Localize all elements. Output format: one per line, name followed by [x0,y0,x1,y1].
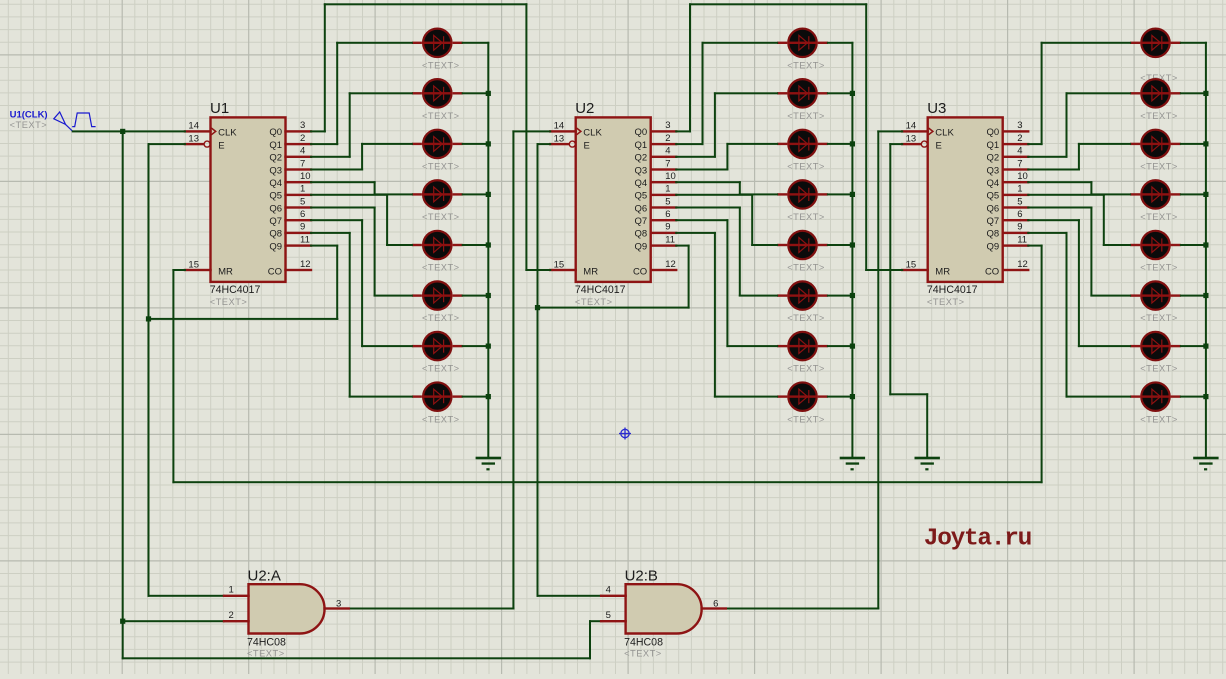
IC U3 pin 12 CO stub [1002,269,1030,271]
IC U2 pin 15 MR stub [549,269,577,271]
IC U3 <TEXT> label [927,297,965,307]
IC U3 pin 5 Q6 stub [1002,206,1030,208]
svg-text:U2:B: U2:B [625,567,658,584]
ground U1 LED column [476,457,501,471]
svg-text:2: 2 [1017,133,1022,144]
clock generator <TEXT> label [10,120,48,130]
LED D11 [777,130,828,158]
IC U2 pin 12 CO stub [650,269,678,271]
svg-text:Q6: Q6 [987,203,1000,214]
svg-text:<TEXT>: <TEXT> [1140,263,1178,273]
junction U1 cathode bus row 3 [486,141,491,146]
LED D15 <TEXT> label [787,364,825,374]
IC U3 pin Q9 name [987,241,1000,252]
svg-text:12: 12 [300,259,311,270]
IC U2 pin Q4 name [635,178,648,189]
IC U2 pin 10 number [665,171,676,182]
wire U3 Q8 out [1027,232,1067,234]
svg-text:MR: MR [583,266,598,277]
gate U2:B pin 6 number [713,599,718,610]
wire U2 LED3 cathode to bus [827,143,854,145]
wire U3 LED4 cathode to bus [1180,193,1207,195]
IC U1 pin 6 Q7 stub [284,219,312,221]
IC U2 pin 12 number [665,259,676,270]
svg-text:1: 1 [1017,184,1022,195]
clock generator label U1(CLK) [10,110,48,121]
IC U3 pin CLK name [935,127,954,138]
ground U2 LED column [840,457,865,471]
LED D13 <TEXT> label [787,263,825,273]
LED D3 [412,130,463,158]
origin cursor marker [619,428,631,440]
IC U2 pin 5 number [665,196,670,207]
svg-text:E: E [936,140,942,151]
svg-text:Q9: Q9 [987,241,1000,252]
wire U2 Q4 out [675,181,741,183]
svg-text:Q3: Q3 [269,165,282,176]
svg-text:<TEXT>: <TEXT> [1140,162,1178,172]
wire U1 Q8 vertical [349,232,351,398]
IC U2 pin 13 E inversion bubble [569,141,575,147]
svg-text:Q2: Q2 [987,153,1000,164]
junction U1 cathode bus row 7 [486,344,491,349]
LED D1 <TEXT> label [422,60,460,70]
wire U3 E ground drop [926,393,928,458]
wire U1 LED4 cathode to bus [462,193,490,195]
IC U1 <TEXT> label [210,297,248,307]
IC U1 value 74HC4017 [210,284,261,296]
junction U1 cathode bus row 5 [486,242,491,247]
wire U1 Q6 to LED anode [374,295,413,297]
svg-text:3: 3 [665,120,670,131]
wire U1 Q4 vertical [374,181,376,195]
wire U1 LED5 cathode to bus [462,244,490,246]
svg-text:U2:A: U2:A [248,567,281,584]
svg-text:Q8: Q8 [635,229,648,240]
LED D15 [777,332,828,360]
IC U1 pin 12 number [300,259,311,270]
wire U1 Q0 down to U2 MR [525,3,527,271]
svg-text:Q4: Q4 [987,178,1000,189]
LED D10 [777,79,828,107]
svg-text:Q5: Q5 [987,191,1000,202]
wire clock vertical down [122,130,124,622]
wire U3 Q1 to LED anode [1041,42,1132,44]
LED D3 <TEXT> label [422,162,460,172]
LED D23 <TEXT> label [1140,364,1178,374]
wire U2 Q9 loop horizontal [537,307,690,309]
wire U1 LED3 cathode to bus [462,143,490,145]
IC U1 pin 7 Q3 stub [284,168,312,170]
AND gate U2:A 74HC08 body [249,584,325,633]
wire U3 Q8 to LED anode [1066,396,1132,398]
wire U2 Q4 vertical [739,181,741,195]
IC U1 pin 13 E stub [184,143,204,145]
svg-text:6: 6 [300,209,305,220]
LED D19 [1130,130,1181,158]
IC U3 CLK edge-trigger chevron [929,128,933,135]
LED D6 [412,281,463,309]
wire U3 E vertical down [889,143,891,395]
IC U1 pin 3 number [300,120,305,131]
IC U1 pin 4 number [300,146,305,157]
IC U1 pin 11 number [300,234,310,245]
svg-text:Q7: Q7 [987,216,1000,227]
IC U1 pin Q7 name [269,216,282,227]
IC U3 pin 2 Q1 stub [1002,143,1030,145]
wire U1 LED1 cathode to bus [462,42,490,44]
IC U1 pin E name [218,140,224,151]
IC U1 pin MR name [218,266,233,277]
wire U3 Q3 vertical [1078,143,1080,171]
gate U2:A <TEXT> label [247,648,285,658]
svg-text:Joyta.ru: Joyta.ru [924,526,1031,553]
svg-text:4: 4 [606,584,611,595]
svg-text:74HC4017: 74HC4017 [927,284,978,296]
IC U3 pin 2 number [1017,133,1022,144]
svg-text:74HC4017: 74HC4017 [575,284,626,296]
wire U2 Q7 to LED anode [726,345,778,347]
gate U2:A output pin 3 stub [323,607,350,609]
wire U1 LED8 cathode to bus [462,396,490,398]
wire U3 LED3 cathode to bus [1180,143,1207,145]
wire U3 Q3 to LED anode [1078,143,1131,145]
svg-text:Q1: Q1 [987,140,1000,151]
svg-text:CLK: CLK [935,127,954,138]
svg-text:<TEXT>: <TEXT> [1140,414,1178,424]
wire U3 Q5 vertical [1103,194,1105,246]
wire into U2 MR [525,269,551,271]
wire U1 Q4 out [310,181,376,183]
wire U1 E to left [148,143,187,145]
svg-text:Q3: Q3 [987,165,1000,176]
junction U2 cathode bus row 6 [850,293,855,298]
IC U2 pin 5 Q6 stub [650,206,678,208]
IC U2 pin Q5 name [635,191,648,202]
wire U1 Q5 vertical [386,194,388,246]
wire U3 Q6 out [1027,207,1092,209]
wire U3 Q9 out [1027,245,1042,247]
svg-text:10: 10 [300,171,311,182]
IC U2 pin CO name [633,266,647,277]
junction U3 cathode bus row 7 [1203,344,1208,349]
junction U3 cathode bus row 2 [1203,91,1208,96]
wire U1 Q1 out [310,143,338,145]
svg-text:2: 2 [300,133,305,144]
IC U2 pin 6 number [665,209,670,220]
IC U3 pin 13 E inversion bubble [921,141,927,147]
IC U3 pin Q6 name [987,203,1000,214]
junction U2 cathode bus row 5 [850,242,855,247]
wire U2 Q9 loop vertical [688,245,690,309]
IC U1 pin 12 CO stub [284,269,312,271]
IC U2 pin MR name [583,266,598,277]
IC U3 pin 9 number [1017,222,1022,233]
svg-text:<TEXT>: <TEXT> [927,297,965,307]
IC U3 pin CO name [985,266,999,277]
svg-text:13: 13 [554,133,565,144]
wire U3 Q7 to LED anode [1078,345,1131,347]
svg-text:U3: U3 [927,100,946,117]
svg-text:Q7: Q7 [635,216,648,227]
svg-text:7: 7 [300,158,305,169]
IC U1 pin CO name [268,266,282,277]
IC U2 <TEXT> label [575,297,613,307]
svg-text:<TEXT>: <TEXT> [422,212,460,222]
IC U2 pin 10 Q4 stub [650,181,678,183]
junction U1 Q9 loop on E net [146,316,151,321]
wire U1 Q3 to LED anode [361,143,413,145]
wire U2 Q6 out [675,207,741,209]
junction U3 cathode bus row 5 [1203,242,1208,247]
wire clock to gate A input 2 [122,620,225,622]
svg-text:<TEXT>: <TEXT> [787,162,825,172]
wire U1 Q7 out [310,219,363,221]
wire U2 Q6 vertical [739,207,741,297]
IC U3 74HC4017 body [928,117,1003,282]
wire U3 E to left [889,143,903,145]
wire U2 Q3 vertical [726,143,728,171]
IC U3 pin 14 number [906,121,917,132]
IC U2 pin 3 Q0 stub [650,130,678,132]
IC U3 pin 13 E stub [901,143,921,145]
wire U2 Q1 vertical [702,42,704,145]
wire clock gen to U1 CLK [72,130,186,132]
IC U3 pin 6 Q7 stub [1002,219,1030,221]
wire U2 LED1 cathode to bus [827,42,854,44]
IC U1 pin Q3 name [269,165,282,176]
IC U3 pin 7 number [1017,158,1022,169]
IC U2 pin Q1 name [635,140,648,151]
wire U1 Q6 vertical [374,207,376,297]
wire U1 Q0 top run [324,3,528,5]
IC U1 pin 10 number [300,171,311,182]
svg-text:15: 15 [554,259,565,270]
IC U2 pin Q9 name [635,241,648,252]
wire U2 Q4 to LED anode [739,193,778,195]
IC U2 74HC4017 body [576,117,651,282]
IC U3 pin E name [936,140,942,151]
IC U1 pin 10 Q4 stub [284,181,312,183]
LED D11 <TEXT> label [787,162,825,172]
svg-text:10: 10 [665,171,676,182]
junction U1 cathode bus row 8 [486,394,491,399]
IC U1 pin Q8 name [269,229,282,240]
IC U2 pin 13 number [554,133,565,144]
wire U3 LED1 cathode to bus [1180,42,1207,44]
svg-text:U1: U1 [210,100,229,117]
wire U1 Q9 out [310,245,338,247]
IC U1 CLK edge-trigger chevron [211,128,215,135]
wire U1 LED7 cathode to bus [462,345,490,347]
LED D2 <TEXT> label [422,111,460,121]
LED D9 [777,29,828,57]
svg-text:<TEXT>: <TEXT> [787,60,825,70]
wire U3 Q1 out [1027,143,1042,145]
svg-text:Q6: Q6 [635,203,648,214]
svg-text:<TEXT>: <TEXT> [422,263,460,273]
IC U1 pin 4 Q2 stub [284,156,312,158]
gate U2:B input pin 4 stub [600,595,627,597]
LED D14 [777,281,828,309]
junction U3 cathode bus row 8 [1203,394,1208,399]
IC U3 pin 3 number [1017,120,1022,131]
wire U2 Q2 to LED anode [714,92,778,94]
svg-text:<TEXT>: <TEXT> [422,60,460,70]
IC U3 pin 14 CLK stub [901,130,929,132]
junction U2 Q9 loop on U2 E net [535,305,540,310]
svg-text:<TEXT>: <TEXT> [787,111,825,121]
wire U2 LED5 cathode to bus [827,244,854,246]
IC U1 pin Q4 name [269,178,282,189]
LED D9 <TEXT> label [787,60,825,70]
svg-text:<TEXT>: <TEXT> [787,364,825,374]
wire U3 Q6 to LED anode [1090,295,1131,297]
wire U3 Q7 out [1027,219,1080,221]
wire U3 Q4 vertical [1090,181,1092,195]
wire U1 E vertical down [148,143,150,597]
wire U2 Q5 to LED anode [751,244,778,246]
wire U1 LED2 cathode to bus [462,92,490,94]
svg-text:CLK: CLK [583,127,602,138]
wire U1 Q8 to LED anode [349,396,413,398]
wire U3 Q2 out [1027,156,1067,158]
LED D21 [1130,231,1181,259]
wire U2 LED2 cathode to bus [827,92,854,94]
IC U3 value 74HC4017 [927,284,978,296]
wire U1 Q3 out [310,169,363,171]
svg-text:<TEXT>: <TEXT> [1140,111,1178,121]
svg-text:3: 3 [1017,120,1022,131]
IC U1 pin 1 Q5 stub [284,194,312,196]
IC U1 pin 2 number [300,133,305,144]
wire U2 Q0 down to U3 MR [865,3,867,271]
IC U1 pin Q5 name [269,191,282,202]
wire U2 Q9 out [675,245,689,247]
svg-text:4: 4 [665,146,670,157]
gate U2:A value 74HC08 [247,636,286,648]
LED D7 <TEXT> label [422,364,460,374]
junction U1 cathode bus row 4 [486,192,491,197]
IC U2 pin 13 E stub [549,143,569,145]
wire U1 Q6 out [310,207,376,209]
svg-text:10: 10 [1017,171,1028,182]
wire U1 Q0 vertical up [324,3,326,132]
junction U3 cathode bus row 3 [1203,141,1208,146]
IC U3 pin Q1 name [987,140,1000,151]
svg-text:<TEXT>: <TEXT> [422,111,460,121]
svg-text:<TEXT>: <TEXT> [422,364,460,374]
gate U2:B pin 4 number [606,584,611,595]
wire U2 E vertical down [537,143,539,597]
IC U3 pin Q3 name [987,165,1000,176]
wire U2 Q0 top run [689,3,867,5]
IC U2 pin 1 number [665,184,670,195]
wire U2 Q3 to LED anode [726,143,778,145]
IC U3 pin Q4 name [987,178,1000,189]
svg-text:E: E [584,140,590,151]
wire U3 Q6 vertical [1090,207,1092,297]
wire U3 LED7 cathode to bus [1180,345,1207,347]
svg-text:E: E [218,140,224,151]
wire U3 Q8 vertical [1066,232,1068,398]
LED D16 <TEXT> label [787,414,825,424]
LED D12 [777,180,828,208]
wire to gate A input 1 [148,595,226,597]
IC U2 pin 4 Q2 stub [650,156,678,158]
IC U1 pin 13 number [188,133,199,144]
LED D8 [412,382,463,410]
IC U2 pin Q8 name [635,229,648,240]
wire U1 MR to left [172,269,186,271]
IC U1 pin 15 number [188,259,199,270]
LED D12 <TEXT> label [787,212,825,222]
svg-text:Q1: Q1 [635,140,648,151]
wire U3 Q3 out [1027,169,1080,171]
svg-text:9: 9 [665,222,670,233]
svg-text:<TEXT>: <TEXT> [422,313,460,323]
IC U2 pin 6 Q7 stub [650,219,678,221]
wire into U3 MR [865,269,903,271]
wire clock down to bottom run [122,620,124,659]
svg-text:9: 9 [1017,222,1022,233]
LED D22 [1130,281,1181,309]
LED D24 [1130,382,1181,410]
svg-text:Q7: Q7 [269,216,282,227]
svg-text:<TEXT>: <TEXT> [210,297,248,307]
svg-text:4: 4 [1017,146,1022,157]
IC U1 pin 7 number [300,158,305,169]
IC U2 pin 14 CLK stub [549,130,577,132]
svg-text:12: 12 [1017,259,1028,270]
wire U1 Q1 vertical [336,42,338,145]
wire U2 E to left [537,143,552,145]
svg-text:15: 15 [188,259,199,270]
LED D17 <TEXT> label [1140,73,1178,83]
wire U2 Q5 vertical [751,194,753,246]
svg-text:<TEXT>: <TEXT> [422,162,460,172]
svg-text:5: 5 [1017,196,1022,207]
wire U2 LED7 cathode to bus [827,345,854,347]
svg-text:Q5: Q5 [635,191,648,202]
svg-text:CLK: CLK [218,127,237,138]
svg-text:<TEXT>: <TEXT> [787,313,825,323]
wire U1 Q9 loop vertical [336,245,338,320]
wire U2 Q8 out [675,232,716,234]
wire U1 Q9 loop horizontal [148,318,339,320]
IC U3 pin 7 Q3 stub [1002,168,1030,170]
IC U1 pin 5 Q6 stub [284,206,312,208]
IC U2 pin 15 number [554,259,565,270]
IC U3 pin 10 number [1017,171,1028,182]
IC U1 pin 14 CLK stub [184,130,212,132]
IC U2 pin Q6 name [635,203,648,214]
LED D5 [412,231,463,259]
wire clock to gate B input 5 [589,620,602,622]
wire clock bottom run [122,657,591,659]
svg-text:Q8: Q8 [269,229,282,240]
IC U1 pin 2 Q1 stub [284,143,312,145]
LED D8 <TEXT> label [422,414,460,424]
wire U1 Q5 out [310,194,388,196]
IC U1 pin Q6 name [269,203,282,214]
IC U3 pin 1 Q5 stub [1002,194,1030,196]
IC U3 pin Q8 name [987,229,1000,240]
wire U3 Q9 vertical down [1041,245,1043,484]
IC U1 pin 13 E inversion bubble [204,141,210,147]
wire U1 Q3 vertical [361,143,363,171]
IC U3 pin 6 number [1017,209,1022,220]
